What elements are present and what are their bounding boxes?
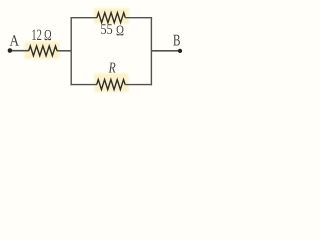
label ohm (55) [117,26,124,36]
parallel box left edge [70,17,72,85]
label 12 [32,30,41,40]
resistor R3 (R) zigzag [97,80,125,90]
node B dot [178,49,182,53]
label ohm (12) [45,30,52,40]
wire A to R1 [10,50,29,52]
highlight behind resistor R3 (R) [95,74,129,93]
parallel box top-left wire [71,17,98,19]
highlight behind resistor R2 (55 ohm) [94,8,129,24]
resistor R1 12 ohm zigzag [29,46,57,56]
parallel box bottom-right wire [125,84,152,86]
label 55 [101,24,112,34]
label R [109,63,116,73]
background [0,0,195,97]
node A dot [8,48,13,53]
parallel box top-right wire [125,17,152,19]
resistor R2 55 ohm zigzag [97,13,125,23]
label A [10,35,19,46]
wire R1 to parallel box [57,50,71,52]
highlight behind resistor R1 (12 ohm) [25,42,60,60]
label B [173,35,180,46]
parallel box right edge [150,17,152,85]
parallel box bottom-left wire [71,84,97,86]
wire box to B [151,50,179,52]
